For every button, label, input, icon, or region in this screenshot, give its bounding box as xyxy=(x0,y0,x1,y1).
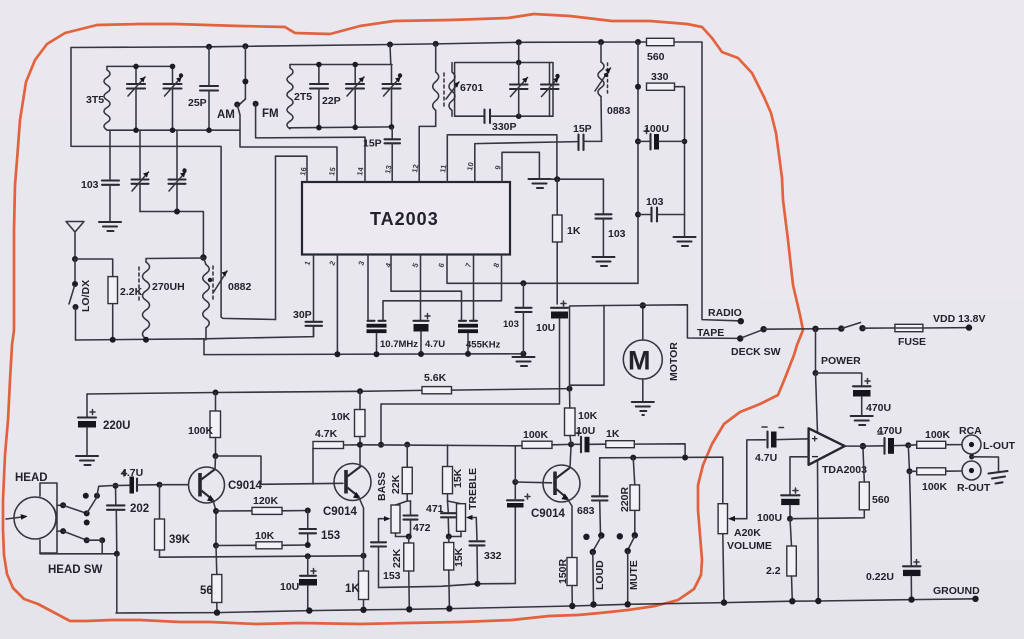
svg-text:0882: 0882 xyxy=(228,281,252,293)
wire fuse to VDD xyxy=(923,327,969,329)
capacitor coupling electrolytic to Q3 base xyxy=(507,482,530,584)
svg-text:120K: 120K xyxy=(253,495,279,507)
wire to R channel xyxy=(907,445,913,474)
capacitor 470U electrolytic (supply) xyxy=(816,373,871,415)
capacitor 103 (right of IC) xyxy=(638,208,685,222)
node RADIO contact xyxy=(738,318,744,324)
svg-text:56: 56 xyxy=(200,585,213,597)
variable capacitor (FM tank 2) xyxy=(383,65,403,130)
svg-text:16: 16 xyxy=(298,167,308,177)
svg-text:470U: 470U xyxy=(866,402,891,414)
resistor 15K (treble upper) xyxy=(443,445,453,501)
wire 0883 down to 15P line xyxy=(600,97,603,142)
transistor Q3 C9014 xyxy=(543,444,580,557)
pin 9 xyxy=(493,152,539,182)
svg-text:TA2003: TA2003 xyxy=(370,209,439,229)
svg-text:0.22U: 0.22U xyxy=(866,571,894,583)
ceramic filter 455KHz xyxy=(458,321,478,354)
wire 330 right to ground riser xyxy=(675,87,685,236)
pin 2 xyxy=(327,255,337,354)
svg-text:10.7MHz: 10.7MHz xyxy=(380,339,418,350)
capacitor 10U electrolytic (Q1 stage bypass) xyxy=(299,556,317,610)
node antenna junction xyxy=(72,256,78,262)
node xyxy=(213,390,219,396)
svg-text:−: − xyxy=(812,450,819,464)
wire collector line to tone stack and Q3 xyxy=(360,445,515,446)
node treble bottom xyxy=(446,534,452,540)
wire riser to motor/tape line xyxy=(570,306,605,389)
resistor 2.2K xyxy=(108,277,118,340)
svg-text:683: 683 xyxy=(577,505,595,517)
wire loudness line xyxy=(600,456,723,459)
inductor 0883 (variable) xyxy=(595,42,611,96)
svg-text:L-OUT: L-OUT xyxy=(983,440,1016,452)
svg-text:11: 11 xyxy=(438,164,448,173)
capacitor 220U electrolytic xyxy=(78,394,96,455)
svg-text:1K: 1K xyxy=(567,225,581,237)
node xyxy=(554,176,560,182)
svg-text:0883: 0883 xyxy=(607,105,631,117)
trimmer capacitor (osc 2) xyxy=(169,130,187,211)
ground (470U supply) xyxy=(851,416,873,425)
capacitor 10U electrolytic (Q3 out coupling) xyxy=(571,431,606,453)
wire 330/100U/103 left riser xyxy=(637,42,639,283)
pin 16 xyxy=(276,156,309,182)
node TAPE contact xyxy=(737,335,743,341)
svg-text:15: 15 xyxy=(327,167,337,177)
pin 13 with capacitor 15P xyxy=(383,127,400,182)
svg-text:C9014: C9014 xyxy=(531,508,565,520)
node base Q1 xyxy=(157,482,163,488)
potentiometer TREBLE xyxy=(448,501,477,537)
svg-text:30P: 30P xyxy=(293,309,312,321)
wire bus to FM tank xyxy=(389,45,392,65)
resistor 1K (IF) xyxy=(553,179,563,304)
node: bus junction dots xyxy=(206,44,212,50)
wire deck sw to power switch xyxy=(764,328,842,331)
pin 7 xyxy=(463,255,473,320)
resistor 120K xyxy=(216,507,308,514)
svg-text:22P: 22P xyxy=(322,95,341,107)
svg-text:103: 103 xyxy=(608,228,626,240)
FM tank top rail xyxy=(290,64,392,66)
FM tank bottom rail xyxy=(290,126,392,129)
pin 14 xyxy=(355,137,365,182)
svg-text:103: 103 xyxy=(503,319,519,330)
capacitor 471 xyxy=(441,501,456,537)
wire Q1 collector to Q2 base xyxy=(216,456,344,484)
svg-text:560: 560 xyxy=(647,51,665,63)
wire main ground bus xyxy=(116,599,976,613)
ground (103 pin11) xyxy=(593,257,615,266)
variable capacitor (FM tank 1) xyxy=(346,62,364,130)
resistor 100K (R-OUT) xyxy=(910,468,963,475)
svg-text:22K: 22K xyxy=(390,474,402,494)
svg-text:GROUND: GROUND xyxy=(933,585,980,597)
svg-text:150R: 150R xyxy=(557,558,569,584)
ground (below IC ground bus) xyxy=(513,357,535,366)
wire bus after 560 and drop to deck switch xyxy=(674,42,738,321)
svg-text:25P: 25P xyxy=(188,97,207,109)
svg-text:15P: 15P xyxy=(573,123,592,135)
capacitor 470U electrolytic (output) xyxy=(878,434,908,454)
pin 6 xyxy=(436,255,638,283)
svg-text:3T5: 3T5 xyxy=(86,94,104,106)
wire bus riser to box xyxy=(518,42,520,62)
AM tank top rail xyxy=(107,65,173,67)
wire POWER branch xyxy=(813,329,819,376)
svg-text:6701: 6701 xyxy=(460,82,484,94)
capacitor 4.7U electrolytic (head coupling) xyxy=(110,471,160,494)
inductor 0882 (variable) xyxy=(203,258,227,340)
svg-text:100K: 100K xyxy=(922,481,948,493)
wire pin9 ground rail to 1K and 103 xyxy=(539,178,603,180)
svg-text:153: 153 xyxy=(383,570,401,582)
node Q2 collector net xyxy=(357,442,363,448)
svg-text:10U: 10U xyxy=(280,581,299,593)
resistor 560 (feedback) xyxy=(859,446,869,510)
ground (220U) xyxy=(76,456,98,465)
IC TA2003 xyxy=(302,182,510,255)
svg-text:TREBLE: TREBLE xyxy=(467,468,479,510)
variable capacitor (AM tank 1) xyxy=(127,64,145,133)
svg-text:POWER: POWER xyxy=(821,355,861,367)
node Q3 base xyxy=(512,479,518,485)
hand-drawn red marker loop around circuit xyxy=(3,14,803,624)
svg-text:FUSE: FUSE xyxy=(898,336,926,348)
capacitor 103 (AGC) xyxy=(516,280,532,354)
node Q1 collector xyxy=(213,453,219,459)
svg-text:FM: FM xyxy=(262,108,279,120)
coil 3T5 xyxy=(104,66,110,130)
switch HEAD SW xyxy=(40,486,117,554)
node xyxy=(516,60,522,66)
svg-text:4.7U: 4.7U xyxy=(755,452,777,464)
svg-text:10U: 10U xyxy=(576,425,595,437)
ground (motor) xyxy=(632,402,654,415)
svg-text:10U: 10U xyxy=(536,322,555,334)
resistor 10K (Q1 emitter) xyxy=(213,542,308,549)
node feedback xyxy=(787,516,793,522)
svg-text:1K: 1K xyxy=(606,428,620,440)
switch LOUD xyxy=(583,532,604,604)
svg-text:10K: 10K xyxy=(331,411,351,423)
node xyxy=(305,508,311,514)
wire: oscillator node line xyxy=(140,212,203,258)
wire tone wiper bus xyxy=(379,584,516,588)
node motor line xyxy=(640,302,646,308)
wire treble wiper with capacitor 332 xyxy=(470,518,485,584)
switch POWER xyxy=(841,323,865,332)
motor M xyxy=(623,306,662,402)
svg-text:VDD 13.8V: VDD 13.8V xyxy=(933,313,986,325)
svg-text:HEAD SW: HEAD SW xyxy=(48,564,102,576)
resistor 150R (Q3 emitter) xyxy=(567,558,577,607)
svg-text:1K: 1K xyxy=(345,583,360,595)
variable capacitor (6701 box 1) xyxy=(510,63,528,117)
svg-text:470U: 470U xyxy=(877,425,902,437)
resistor 5.6K xyxy=(422,387,452,394)
svg-text:270UH: 270UH xyxy=(152,281,185,293)
node VDD terminal xyxy=(966,324,972,330)
svg-text:13: 13 xyxy=(383,165,393,175)
wire riser base to 100K xyxy=(514,446,516,482)
ceramic filter 10.7MHz xyxy=(367,321,387,354)
svg-text:RCA: RCA xyxy=(959,425,982,437)
node Q3 collector xyxy=(568,441,574,447)
node xyxy=(630,455,636,461)
ground (RCA jacks) xyxy=(969,454,1007,483)
resistor 10K (Q3 collector load) xyxy=(565,389,576,445)
capacitor 683 xyxy=(592,458,608,535)
capacitor 4.7U electrolytic (amp input) xyxy=(762,427,809,448)
node bass bottom xyxy=(406,534,412,540)
svg-text:+: + xyxy=(812,434,818,446)
svg-text:560: 560 xyxy=(872,494,890,506)
capacitor 103 with ground (AM tank) xyxy=(102,130,119,221)
svg-text:202: 202 xyxy=(130,503,149,515)
resistor 2.2 xyxy=(787,519,797,602)
svg-text:LO/DX: LO/DX xyxy=(80,280,92,312)
svg-text:C9014: C9014 xyxy=(323,506,357,518)
wire: top supply bus xyxy=(71,42,646,48)
wire bass wiper with capacitor 153 xyxy=(371,519,386,588)
switch MUTE xyxy=(617,532,638,604)
wire power rail through op-amp xyxy=(816,373,818,433)
capacitor 103 (pin11 net) with ground xyxy=(596,179,612,256)
svg-text:AM: AM xyxy=(217,109,235,121)
svg-text:BASS: BASS xyxy=(376,472,388,501)
node xyxy=(174,209,180,215)
wire motor line to TAPE contact xyxy=(604,305,739,339)
capacitor 10U electrolytic (audio out) xyxy=(381,301,568,445)
node amp output xyxy=(860,443,866,449)
switch DECK SW arm xyxy=(742,326,767,338)
node output split xyxy=(905,442,911,448)
transformer 6701 xyxy=(419,44,459,182)
svg-text:A20K: A20K xyxy=(734,527,761,539)
svg-text:15K: 15K xyxy=(452,468,464,488)
svg-text:10K: 10K xyxy=(255,530,275,542)
pin 11 xyxy=(438,135,557,182)
node xyxy=(110,337,116,343)
capacitor 202 xyxy=(107,483,125,613)
node ground bus junctions xyxy=(214,609,220,615)
resistor 330 xyxy=(647,83,675,90)
svg-text:472: 472 xyxy=(413,522,431,534)
wire op-amp ground pin to bus xyxy=(817,461,820,601)
svg-text:455KHz: 455KHz xyxy=(466,340,501,351)
svg-text:M: M xyxy=(628,346,651,376)
svg-text:C9014: C9014 xyxy=(228,480,262,492)
wire volume wiper to amp input xyxy=(747,440,766,519)
wire feedback to 560 xyxy=(790,510,864,519)
capacitor 0.22U xyxy=(903,560,921,600)
antenna xyxy=(66,222,84,260)
fuse FUSE xyxy=(895,324,923,331)
resistor 100K (L-OUT) xyxy=(908,441,962,448)
wire antenna to 2.2K xyxy=(75,259,113,277)
AM tank bottom rail + riser to pin15 line xyxy=(107,130,337,182)
svg-text:100K: 100K xyxy=(925,429,951,441)
capacitor 25P xyxy=(200,47,218,133)
svg-text:100U: 100U xyxy=(757,512,782,524)
wire to 270UH xyxy=(146,258,203,262)
wire inverting input to feedback xyxy=(790,457,809,494)
wire supply rail 220U to 5.6K xyxy=(87,390,422,394)
capacitor 472 xyxy=(404,501,418,537)
node 270UH top junction xyxy=(200,254,206,260)
svg-text:103: 103 xyxy=(646,196,664,208)
switch AM/FM pole from bus xyxy=(240,46,248,104)
svg-text:22K: 22K xyxy=(391,548,403,568)
wire to fuse xyxy=(863,327,895,329)
node Q1 emitter xyxy=(213,508,219,514)
svg-text:TDA2003: TDA2003 xyxy=(822,464,867,476)
capacitor 22P xyxy=(310,62,328,131)
svg-text:LOUD: LOUD xyxy=(594,560,606,590)
node xyxy=(812,326,818,332)
variable capacitor (AM tank 2) xyxy=(164,64,184,133)
svg-text:MOTOR: MOTOR xyxy=(668,342,680,381)
svg-text:2.2: 2.2 xyxy=(766,565,781,577)
resistor 4.7K xyxy=(313,442,360,485)
svg-text:103: 103 xyxy=(81,179,99,191)
resistor 10K (Q2 collector load) xyxy=(355,391,366,445)
svg-text:330: 330 xyxy=(651,71,669,83)
node xyxy=(567,386,573,392)
pin 5 xyxy=(410,255,420,320)
coil 2T5 xyxy=(287,65,293,129)
ground (pin 9) xyxy=(529,179,551,188)
wire Q3 base xyxy=(515,481,551,484)
svg-text:332: 332 xyxy=(484,550,502,562)
svg-text:100K: 100K xyxy=(188,425,214,437)
transistor Q2 C9014 xyxy=(334,445,371,571)
capacitor 330P xyxy=(485,110,491,124)
svg-text:4.7U: 4.7U xyxy=(425,339,445,350)
wire 5.6K to 10K/motor riser xyxy=(452,389,570,391)
wire rail to 30P cap xyxy=(204,326,314,339)
svg-text:330P: 330P xyxy=(492,121,517,133)
svg-text:10K: 10K xyxy=(578,410,598,422)
op-amp TDA2003 xyxy=(809,428,845,465)
tape head symbol xyxy=(6,483,57,553)
svg-text:R-OUT: R-OUT xyxy=(957,482,991,494)
svg-text:DECK SW: DECK SW xyxy=(731,346,781,358)
resistor 100K (Q1 collector load) xyxy=(210,393,221,457)
svg-text:TAPE: TAPE xyxy=(697,327,724,339)
resistor 220R (mute) xyxy=(630,458,640,535)
svg-text:2T5: 2T5 xyxy=(294,91,312,103)
node xyxy=(635,84,641,90)
switch LO/DX xyxy=(69,259,79,340)
capacitor 100U electrolytic xyxy=(638,129,685,150)
node FM contact xyxy=(253,101,365,138)
trimmer capacitor (osc 1) xyxy=(132,130,149,211)
resistor 1K (Q2 emitter) xyxy=(359,571,369,610)
wire output down to 0.22U xyxy=(910,471,912,565)
pin 8 xyxy=(383,255,502,320)
potentiometer BASS xyxy=(379,501,409,537)
capacitor 153 (Q1 stage) xyxy=(300,511,317,546)
svg-text:220U: 220U xyxy=(103,420,131,432)
wire output to 470U xyxy=(845,445,885,447)
resistor 39K xyxy=(155,485,165,558)
svg-text:12: 12 xyxy=(410,164,420,174)
inductor 270UH xyxy=(139,262,150,340)
transistor Q1 C9014 xyxy=(189,456,225,546)
node AM contact xyxy=(234,102,240,131)
potentiometer A20K VOLUME xyxy=(718,457,747,602)
node xyxy=(475,581,481,587)
wire pin16 to oscillator section xyxy=(275,156,277,319)
wire 39K rail to Q2 emitter xyxy=(160,556,364,557)
node xyxy=(305,553,311,559)
ground (below 103) xyxy=(99,222,121,231)
svg-text:4.7K: 4.7K xyxy=(315,428,338,440)
svg-text:153: 153 xyxy=(321,530,340,542)
connector RCA R-OUT xyxy=(962,461,981,480)
wire: tuner bottom rail to 30P net xyxy=(76,339,205,355)
variable capacitor (6701 box 2) xyxy=(541,63,560,117)
wire: outer tuner box left edge xyxy=(71,48,276,320)
svg-text:10: 10 xyxy=(465,162,475,172)
svg-text:VOLUME: VOLUME xyxy=(727,540,772,552)
svg-text:471: 471 xyxy=(426,503,444,515)
resistor 22K (bass upper) xyxy=(402,445,412,501)
svg-text:220R: 220R xyxy=(619,486,631,512)
svg-text:100U: 100U xyxy=(644,123,669,135)
pin 10 with capacitor 15P (second) xyxy=(465,135,601,183)
node xyxy=(334,351,340,357)
capacitor 4.7U electrolytic (IF) xyxy=(414,314,431,355)
svg-text:15K: 15K xyxy=(453,547,465,567)
ground (330/100U/103 chain) xyxy=(674,237,696,246)
pin 3 xyxy=(356,255,368,320)
wire IC ground bus xyxy=(204,353,523,356)
resistor 560 (on bus) xyxy=(647,38,675,45)
resistor 1K (to volume) xyxy=(606,441,685,458)
svg-text:39K: 39K xyxy=(169,534,191,546)
wire: 6701 tuning box xyxy=(455,63,553,117)
resistor 22K (bass lower) xyxy=(404,537,414,610)
wire base to Q1 xyxy=(160,484,189,486)
capacitor 100U electrolytic (feedback) xyxy=(781,488,799,519)
pin 4 xyxy=(383,255,461,320)
svg-text:4.7U: 4.7U xyxy=(121,467,143,479)
resistor 15K (treble lower) xyxy=(444,537,454,609)
resistor 56 xyxy=(212,546,222,613)
resistor 100K (Q3 bias) xyxy=(515,441,571,448)
node xyxy=(305,542,311,548)
svg-text:15P: 15P xyxy=(363,138,382,150)
connector RCA L-OUT xyxy=(962,435,981,454)
svg-text:MUTE: MUTE xyxy=(628,560,640,590)
svg-text:100K: 100K xyxy=(523,429,549,441)
svg-text:RADIO: RADIO xyxy=(708,307,742,319)
pin 1 with capacitor 30P xyxy=(302,255,322,337)
svg-text:5.6K: 5.6K xyxy=(424,372,447,384)
svg-text:HEAD: HEAD xyxy=(15,472,48,484)
